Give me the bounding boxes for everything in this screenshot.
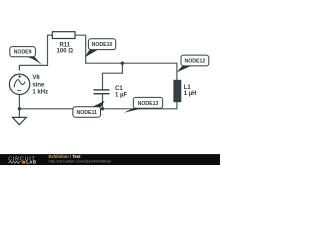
svg-text:LAB: LAB: [26, 160, 36, 165]
svg-text:V6: V6: [32, 75, 40, 81]
wire left loop from V6 top to resistor: [19, 35, 52, 70]
svg-text:1 µH: 1 µH: [184, 91, 197, 97]
ground: [13, 117, 27, 124]
svg-text:R11: R11: [59, 42, 70, 48]
svg-text:NODE10: NODE10: [92, 42, 113, 48]
node label NODE9: [10, 47, 42, 65]
svg-text:NODE11: NODE11: [76, 110, 97, 116]
voltage source V6: [9, 74, 48, 95]
inductor L1: [173, 80, 196, 102]
svg-text:L1: L1: [184, 85, 192, 91]
node label NODE12: [177, 55, 209, 72]
svg-text:NODE13: NODE13: [138, 101, 159, 107]
wire inductor bottom to rail: [103, 102, 177, 109]
svg-text:1 µF: 1 µF: [115, 92, 127, 98]
svg-text:100 Ω: 100 Ω: [57, 49, 74, 55]
svg-text:1 kHz: 1 kHz: [32, 90, 48, 96]
resistor R11: [52, 32, 75, 55]
footer bar: [0, 154, 220, 165]
svg-text:C1: C1: [115, 86, 123, 92]
svg-text:sine: sine: [32, 82, 45, 88]
wire capacitor branch jog from junction: [103, 63, 123, 89]
logo zigzag: [8, 161, 21, 163]
svg-text:NODE9: NODE9: [14, 50, 32, 56]
wire V6 bottom to rail and ground stem: [18, 95, 20, 118]
node label NODE10: [85, 39, 115, 57]
node A junction dot top: [121, 62, 124, 65]
svg-text:http://circuitlab.com/c6zw49hd: http://circuitlab.com/c6zw49hd8kwj/: [49, 159, 113, 164]
logo orange block: [22, 161, 25, 164]
wire top middle horizontal: [86, 62, 177, 64]
node B junction dot bottom left: [18, 107, 21, 110]
capacitor C1: [94, 86, 128, 98]
node C junction dot capacitor-rail: [101, 107, 104, 110]
wire capacitor bottom stem: [102, 94, 104, 109]
wire resistor right to top-middle riser: [75, 35, 86, 63]
svg-text:NODE12: NODE12: [185, 59, 206, 65]
wire right down to inductor: [176, 63, 178, 80]
node label NODE13: [124, 97, 163, 112]
wire bottom rail left part: [19, 108, 102, 110]
node label NODE11: [73, 101, 105, 118]
